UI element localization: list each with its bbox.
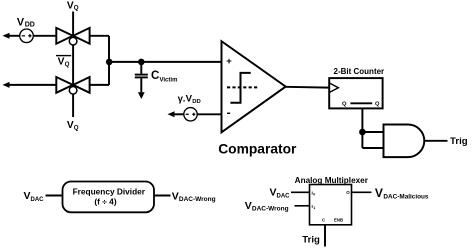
svg-text:Q: Q [342, 101, 347, 107]
wire counter output down [361, 108, 363, 148]
clock input triangle [329, 83, 338, 93]
wire VDD source to TG1 [33, 35, 56, 37]
svg-text:Q: Q [74, 4, 79, 11]
svg-text:O: O [346, 190, 350, 195]
label VDAC-Wrong divider output [172, 190, 216, 203]
AND gate [384, 125, 425, 158]
arrowhead left bottom [3, 82, 10, 88]
svg-text:(f ÷ 4): (f ÷ 4) [94, 196, 116, 206]
wire node to AND top input [362, 131, 383, 133]
wire VDAC-Wrong to mux I1 [295, 205, 310, 207]
bubble TG1 [69, 37, 77, 45]
svg-text:V: V [245, 200, 252, 212]
pin label I0 [312, 190, 316, 196]
svg-text:Analog Multiplexer: Analog Multiplexer [295, 176, 369, 185]
label VDD [17, 16, 35, 28]
wire AND output [424, 140, 447, 142]
svg-text:Comparator: Comparator [218, 142, 297, 157]
svg-text:Q: Q [375, 101, 380, 107]
transmission gate TG2 [56, 77, 89, 93]
wire gammaVDD to left arrow [171, 113, 184, 115]
wire TG2 bubble to VQ bottom [72, 94, 74, 117]
svg-text:DAC-Wrong: DAC-Wrong [252, 206, 289, 213]
capacitor CVictim [135, 62, 148, 93]
label VQbar [56, 56, 71, 68]
svg-text:-: - [227, 106, 231, 120]
wire TG1 bubble to TG2 (VQbar net) [72, 45, 74, 86]
wire VQ control to TG1 [72, 12, 74, 39]
svg-text:V: V [375, 186, 383, 200]
op-amp comparator U1 [222, 41, 286, 132]
svg-text:0: 0 [313, 193, 315, 197]
node junction bus [106, 59, 113, 66]
svg-text:DD: DD [192, 99, 201, 105]
wire VDAC to divider [46, 195, 63, 197]
svg-text:C: C [151, 70, 159, 82]
wire VDD source to left arrow [6, 35, 20, 37]
svg-text:Frequency Divider: Frequency Divider [73, 186, 146, 196]
svg-text:Trig: Trig [450, 136, 468, 147]
svg-text:1: 1 [313, 206, 315, 210]
arrowhead gammaVDD [168, 111, 175, 117]
svg-text:ENB: ENB [334, 218, 343, 223]
svg-text:2-Bit Counter: 2-Bit Counter [334, 67, 385, 76]
label VDAC-Malicious [375, 186, 429, 201]
label VDAC-Wrong mux input [245, 200, 289, 213]
svg-text:DAC-Wrong: DAC-Wrong [179, 196, 216, 203]
svg-text:DAC: DAC [277, 194, 291, 200]
svg-text:V: V [58, 57, 65, 68]
svg-text:DAC-Malicious: DAC-Malicious [383, 194, 429, 201]
node junction capacitor [138, 59, 145, 66]
svg-text:Q: Q [65, 61, 70, 68]
wire comparator output to counter [285, 86, 329, 89]
svg-text:V: V [17, 16, 25, 28]
svg-text:Victim: Victim [160, 78, 178, 84]
arrowhead left top [3, 33, 10, 39]
voltage source VDD [20, 29, 34, 43]
2-bit counter box [329, 78, 382, 108]
hysteresis symbol [227, 73, 259, 103]
dash between Q labels [350, 102, 372, 104]
wire TG2 right to bus [90, 84, 109, 86]
svg-text:V: V [270, 187, 277, 199]
svg-text:Q: Q [74, 124, 79, 131]
wire mux output [352, 191, 372, 193]
wire node to comparator plus [109, 61, 222, 63]
label VDAC divider input [24, 190, 45, 203]
wire Trig to mux C [324, 225, 326, 247]
wire TG1 right to bus [90, 35, 109, 37]
svg-text:DD: DD [25, 21, 35, 28]
svg-text:V: V [24, 190, 31, 202]
analog multiplexer box [310, 185, 352, 225]
wire TG2 left to arrow [6, 84, 57, 86]
svg-text:Trig: Trig [302, 235, 320, 246]
wire node to AND bottom input [362, 147, 383, 149]
node junction counter output [359, 129, 366, 136]
ground arrow capacitor [138, 92, 145, 99]
bubble TG2 [69, 87, 77, 95]
wire VDAC to mux I0 [291, 191, 310, 193]
label CVictim [151, 70, 177, 84]
pin label I1 [312, 204, 316, 210]
frequency divider box [63, 182, 155, 213]
wire divider output [154, 195, 171, 197]
wire vertical bus [108, 36, 110, 85]
label VQ top [67, 1, 79, 12]
svg-text:C: C [322, 218, 325, 223]
voltage source gammaVDD [184, 108, 197, 121]
svg-text:+: + [226, 56, 232, 67]
transmission gate TG1 [56, 28, 89, 44]
label VQ bottom [67, 120, 79, 131]
svg-text:V: V [172, 190, 179, 202]
svg-text:DAC: DAC [31, 197, 45, 203]
label gamma VDD [178, 94, 201, 105]
wire gammaVDD to comparator minus [197, 113, 222, 115]
label VDAC mux input [270, 187, 291, 200]
